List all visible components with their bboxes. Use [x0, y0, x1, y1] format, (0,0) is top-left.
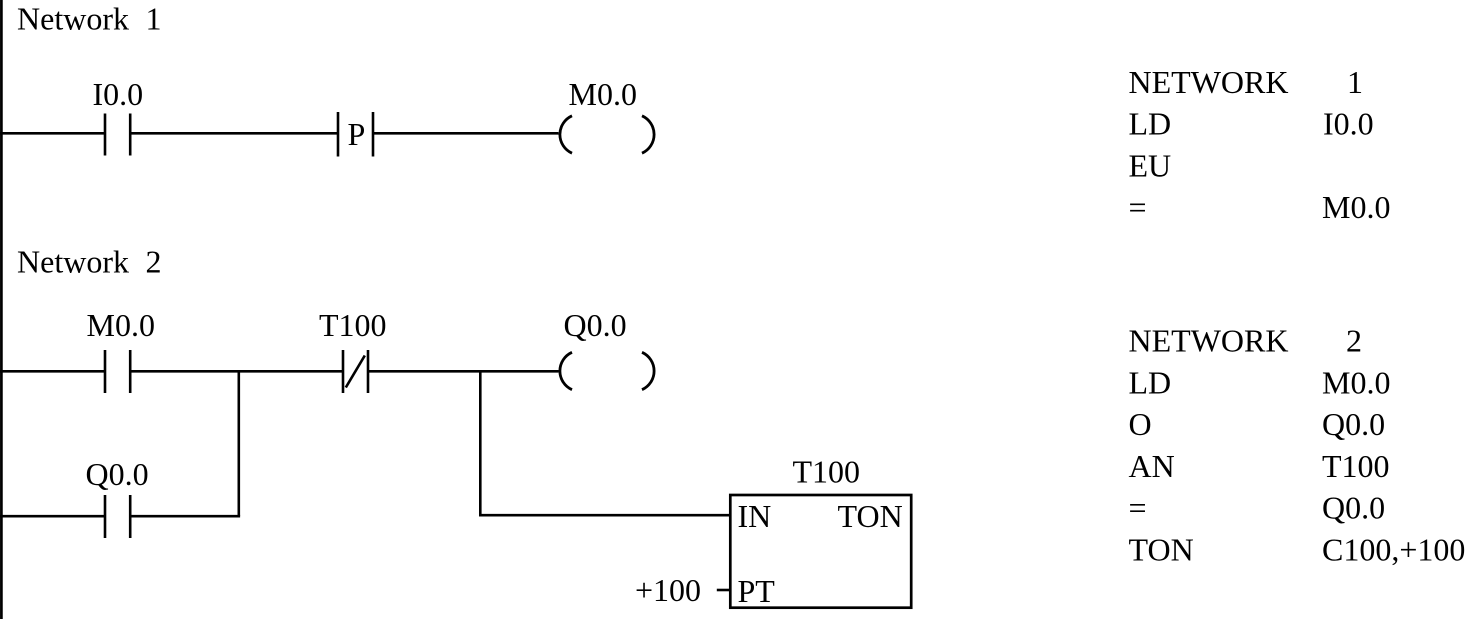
svg-text:EU: EU: [1129, 147, 1172, 183]
svg-text:Q0.0: Q0.0: [564, 307, 627, 343]
wire Q0.0 to branch 1: [130, 515, 240, 518]
contact Q0.0: [105, 495, 130, 538]
svg-text:T100: T100: [1322, 448, 1390, 484]
svg-text:I0.0: I0.0: [93, 76, 144, 112]
wire rung2 rail to M0.0: [0, 370, 104, 373]
wire branch 1 vertical: [238, 370, 241, 516]
svg-text:Network: Network: [17, 0, 129, 36]
svg-text:1: 1: [1347, 64, 1363, 100]
svg-text:LD: LD: [1129, 106, 1172, 142]
wire rung3 rail to Q0.0: [0, 515, 104, 518]
wire branch 2 to timer IN input: [479, 514, 730, 517]
svg-text:M0.0: M0.0: [569, 76, 637, 112]
svg-text:IN: IN: [738, 498, 772, 534]
svg-text:P: P: [348, 116, 366, 152]
svg-text:2: 2: [1346, 323, 1362, 359]
svg-text:T100: T100: [793, 454, 861, 490]
svg-text:O: O: [1129, 406, 1152, 442]
contact T100 normally-closed: [343, 350, 368, 393]
svg-text:NETWORK: NETWORK: [1129, 323, 1289, 359]
svg-text:Q0.0: Q0.0: [1322, 406, 1385, 442]
coil M0.0: [560, 116, 654, 153]
left power rail: [0, 0, 3, 619]
svg-text:Q0.0: Q0.0: [1322, 490, 1385, 526]
STL network 1 listing: [1129, 64, 1391, 225]
svg-text:+100: +100: [635, 572, 701, 608]
wire T100 to coil Q0.0 (junction at branch 2): [368, 370, 559, 373]
svg-text:C100,+100: C100,+100: [1322, 532, 1465, 568]
svg-text:I0.0: I0.0: [1323, 106, 1374, 142]
contact I0.0: [105, 114, 130, 156]
STL network 2 listing: [1129, 323, 1466, 568]
wire rung1 rail to I0.0: [0, 132, 104, 135]
wire P contact to coil M0.0: [373, 132, 559, 135]
svg-text:1: 1: [146, 0, 162, 36]
svg-text:M0.0: M0.0: [87, 307, 155, 343]
svg-text:AN: AN: [1129, 448, 1175, 484]
svg-text:TON: TON: [1129, 532, 1194, 568]
svg-text:Q0.0: Q0.0: [86, 456, 149, 492]
svg-text:TON: TON: [838, 498, 903, 534]
svg-text:=: =: [1129, 490, 1147, 526]
timer T100 TON box: [730, 495, 911, 608]
wire PT input stub: [717, 589, 730, 592]
wire I0.0 to P contact: [130, 132, 338, 135]
svg-text:2: 2: [146, 244, 162, 280]
contact P positive-edge: [338, 112, 373, 157]
svg-text:PT: PT: [738, 573, 776, 609]
svg-text:=: =: [1129, 189, 1147, 225]
svg-text:Network: Network: [17, 244, 129, 280]
svg-text:LD: LD: [1129, 364, 1172, 400]
coil Q0.0: [560, 352, 654, 389]
svg-text:M0.0: M0.0: [1322, 364, 1390, 400]
svg-text:T100: T100: [319, 307, 387, 343]
svg-text:M0.0: M0.0: [1322, 189, 1390, 225]
svg-text:NETWORK: NETWORK: [1129, 64, 1289, 100]
wire M0.0 to T100 contact (junction at branch): [130, 370, 343, 373]
wire branch 2 vertical: [479, 370, 482, 515]
contact M0.0: [105, 350, 130, 393]
